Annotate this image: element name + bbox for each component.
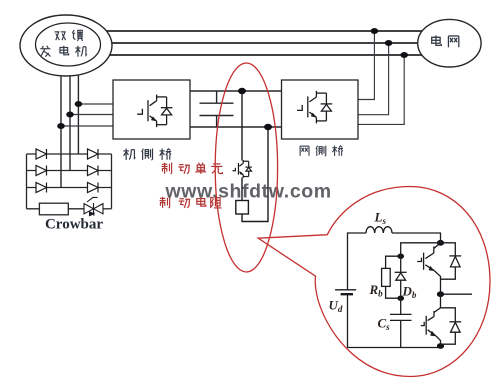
svg-text:www.shfdtw.com: www.shfdtw.com bbox=[165, 181, 332, 203]
svg-text:Crowbar: Crowbar bbox=[45, 217, 103, 233]
